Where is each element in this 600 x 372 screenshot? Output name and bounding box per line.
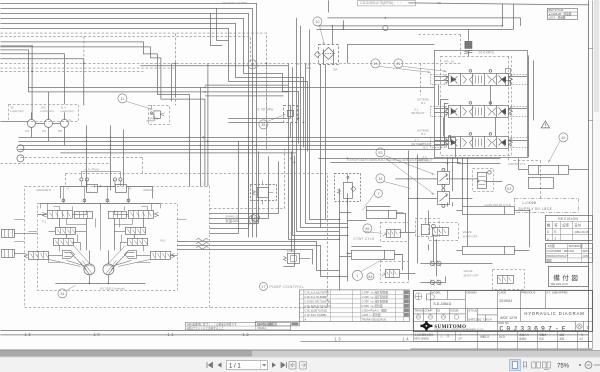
wire top manifold — [40, 186, 160, 203]
wire mid bus 2 — [18, 135, 450, 141]
bifu stamp box — [548, 266, 588, 286]
svg-text:VALVE: VALVE — [463, 269, 472, 273]
layout icon two-up — [532, 362, 541, 368]
wire bank risers — [438, 85, 495, 136]
wire 0.28MPa switch drop — [289, 122, 291, 137]
svg-text:SETC: SETC — [582, 249, 589, 253]
svg-text:1 1: 1 1 — [167, 332, 174, 337]
reducing valve R2 — [125, 227, 145, 234]
check valve symbol CV1 — [383, 25, 388, 30]
pilot relief valve W1 — [250, 180, 276, 204]
svg-text:MODEL: MODEL — [431, 290, 441, 294]
wire dashed pilot 2 — [0, 36, 175, 105]
svg-text:(MAGNET): (MAGNET) — [36, 188, 51, 192]
warning triangle — [541, 121, 549, 128]
svg-text:C.9L.&.A.7(L699B): C.9L.&.A.7(L699B) — [304, 295, 327, 299]
balloon 13 — [371, 59, 380, 68]
wire right column — [528, 55, 533, 157]
svg-text:0. 28 MPa: 0. 28 MPa — [257, 107, 273, 111]
balloon 15 — [248, 60, 257, 69]
balloon 61 — [505, 184, 513, 192]
wire solenoid line 1 — [395, 178, 478, 180]
wire block internal links — [14, 210, 177, 255]
wire block risers — [59, 203, 143, 250]
balloon 7 — [374, 189, 382, 197]
ctwt valve B hatched — [381, 269, 399, 277]
svg-text:備付図: 備付図 — [553, 273, 580, 282]
wire nest corner 1 — [209, 156, 278, 218]
re valve enclosure — [415, 218, 439, 236]
ctwt cylinder 2 — [351, 246, 402, 259]
wire long zigzag 1 — [0, 42, 189, 187]
wire nest corner 2 — [209, 146, 258, 228]
wire bank right stubs — [508, 76, 527, 140]
vertical scrollbar — [593, 0, 600, 350]
wire motor cross lines — [66, 252, 131, 274]
svg-text:SEE 2002.10.18: SEE 2002.10.18 — [550, 283, 568, 286]
nav first page button — [207, 362, 213, 368]
ctwt valve A enclosure — [380, 222, 408, 241]
balloon numbers — [60, 20, 565, 296]
svg-text:GATE DRUM CYLS: GATE DRUM CYLS — [484, 203, 510, 207]
hose break squiggles — [196, 239, 208, 250]
svg-text:20.6 MPa: 20.6 MPa — [478, 50, 493, 54]
svg-text:SOL1B: SOL1B — [286, 249, 295, 253]
svg-text:REV SYS+M: REV SYS+M — [548, 8, 563, 12]
horizontal scrollbar thumb — [0, 351, 252, 357]
reducing valve L2 — [55, 227, 75, 234]
filter F1 — [314, 44, 338, 64]
wire dashed pilot 1 — [0, 33, 266, 150]
svg-text:C.9L.&1U.7(L89B): C.9L.&1U.7(L89B) — [304, 313, 326, 317]
wire bus risers — [86, 125, 123, 190]
balloon 46 — [559, 133, 568, 142]
quick coupler pair 1 — [430, 260, 441, 266]
svg-text:PP₀ 10: PP₀ 10 — [444, 59, 454, 63]
balloon 10 — [313, 17, 322, 26]
wire long zigzag 2 — [0, 47, 205, 187]
wire top bundle line 2 — [0, 8, 252, 237]
ctwt valve A hatched — [382, 229, 400, 237]
svg-text:ISSUE: ISSUE — [450, 308, 458, 312]
damper valve — [145, 105, 165, 121]
svg-text:PRODUCTION A'T: PRODUCTION A'T — [546, 254, 568, 258]
balloon 1 — [352, 270, 362, 280]
zoom slider line — [594, 364, 600, 366]
svg-text:1 /4: 1 /4 — [487, 318, 492, 321]
svg-text:SUPPLY BY LBCE: SUPPLY BY LBCE — [518, 207, 552, 211]
svg-text:15: 15 — [250, 63, 254, 67]
zoom dot — [579, 364, 581, 366]
wire re valve column — [428, 210, 433, 262]
relief valve RV1 — [465, 41, 472, 48]
wire dashed pilot 5 — [265, 63, 267, 150]
svg-text:9 OFF ○◎ 配管図: 9 OFF ○◎ 配管図 — [361, 304, 382, 308]
svg-text:MFG-104(09): MFG-104(09) — [414, 337, 429, 340]
svg-text:▲C205-08・部品図: ▲C205-08・部品図 — [548, 12, 571, 16]
damper enclosure — [148, 105, 169, 124]
svg-text:1 OFF ○◎ 液圧配管図: 1 OFF ○◎ 液圧配管図 — [361, 299, 388, 303]
svg-text:P5: P5 — [58, 129, 62, 133]
svg-text:1: 1 — [554, 236, 556, 240]
wire ctwt valve links — [394, 213, 415, 273]
wire upper right double line — [316, 26, 513, 30]
svg-text:(REAR): (REAR) — [143, 188, 153, 192]
svg-text:HYDRAULIC DIAGRAM: HYDRAULIC DIAGRAM — [524, 311, 584, 316]
svg-text:○1位図: ○1位図 — [546, 244, 555, 248]
revision table right — [545, 215, 592, 240]
shutoff valve lower enclosure — [492, 269, 524, 289]
wire mid bus 1 — [18, 137, 455, 157]
pressure switch B — [283, 105, 297, 122]
balloon 35b — [259, 120, 268, 129]
svg-text:制図者: 制図者 — [539, 332, 547, 336]
svg-text:CDJ11009-A (748TR): CDJ11009-A (748TR) — [222, 1, 247, 5]
wire mid bus 4 — [18, 99, 448, 149]
svg-text:B.3: B.3 — [423, 145, 428, 149]
balloon 41 — [394, 59, 403, 68]
svg-text:049-P5(1)排紙図: 049-P5(1)排紙図 — [257, 322, 277, 326]
packing note box — [185, 322, 290, 330]
wire 0.28MPa branch B — [228, 105, 290, 122]
svg-text:53: 53 — [378, 151, 382, 155]
wire shutoff drop — [420, 240, 492, 282]
balloon 53 — [376, 148, 385, 157]
nav prev button — [218, 362, 222, 367]
svg-text:17: 17 — [261, 285, 265, 289]
balloon 38 — [249, 215, 258, 224]
svg-text:34: 34 — [60, 292, 64, 296]
svg-text:7: 7 — [377, 192, 379, 196]
pump group box — [8, 56, 578, 307]
brake valve L — [24, 251, 48, 259]
wire dashed outer enclosure wing — [65, 173, 327, 307]
svg-text:S-D-J38A11: S-D-J38A11 — [433, 302, 451, 306]
svg-text:J-PR: J-PR — [582, 254, 588, 258]
pilot valve top A2 — [115, 184, 126, 192]
svg-text:日付: 日付 — [574, 222, 581, 227]
svg-text:1 / 1: 1 / 1 — [229, 364, 241, 370]
nav next button — [272, 362, 276, 367]
solenoid valve SV1 — [437, 168, 449, 187]
pilot relief valve W2 — [334, 173, 360, 206]
toolbar background — [0, 357, 600, 372]
wire gantry lines — [518, 158, 588, 169]
svg-text:85: 85 — [365, 227, 369, 231]
shutoff valve upper enclosure — [428, 222, 458, 240]
svg-text:C.9L.&(1B.7L0911): C.9L.&(1B.7L0911) — [304, 308, 327, 312]
wire pump control columns — [283, 151, 294, 266]
nav last page button — [281, 362, 287, 368]
wire bank to solenoid — [447, 157, 452, 191]
balloon 84 — [367, 273, 374, 280]
wire nest corner 3 — [209, 141, 238, 233]
wire nest right fan — [288, 18, 347, 240]
svg-text:審査: 審査 — [559, 332, 564, 336]
spool valve V2 — [444, 102, 512, 118]
wire block pilot web — [14, 186, 186, 262]
svg-text:DRAWN: DRAWN — [466, 290, 476, 294]
re valve — [421, 218, 435, 236]
svg-text:安量285°: 安量285° — [225, 218, 239, 223]
parts list table — [299, 290, 409, 322]
zoom out button — [585, 362, 592, 369]
svg-text:校正: 校正 — [539, 336, 544, 340]
svg-text:PiL2: PiL2 — [160, 238, 166, 242]
svg-text:劁: 劁 — [547, 222, 550, 227]
edge valve far left 2 — [1, 249, 14, 257]
svg-text:CTWT CYLS: CTWT CYLS — [353, 237, 374, 241]
svg-text:排紙口3: 排紙口3 — [480, 334, 489, 338]
svg-text:11: 11 — [120, 97, 124, 101]
counterbalance cone L — [62, 250, 74, 258]
svg-text:1 3: 1 3 — [24, 332, 31, 337]
svg-text:34: 34 — [378, 177, 382, 181]
wire mid bus 5 — [60, 152, 296, 154]
wire left feed line 2 — [0, 54, 83, 106]
svg-text:承認: 承認 — [559, 336, 564, 340]
svg-text:75A: 75A — [332, 67, 337, 71]
svg-text:BY 28112 (entmin): BY 28112 (entmin) — [100, 286, 125, 290]
wire check to balloon61 — [484, 180, 502, 182]
svg-text:16: 16 — [253, 216, 257, 220]
pump P4 — [44, 119, 52, 127]
svg-text:DAMPE: DAMPE — [148, 116, 158, 120]
svg-text:N 0: N 0 — [499, 335, 504, 339]
lock note enclosure — [514, 198, 578, 212]
quick coupler pair 2 — [430, 279, 441, 285]
svg-text:84: 84 — [368, 275, 372, 279]
travel motor M2 — [103, 264, 114, 275]
svg-text:依項台: 依項台 — [519, 336, 527, 340]
svg-text:1 2: 1 2 — [242, 332, 249, 337]
inner reducing valve IL — [74, 211, 92, 218]
layout icon single (active) — [510, 360, 521, 371]
technic table right — [545, 243, 592, 262]
wire center columns — [200, 63, 208, 186]
svg-text:造船九九: 造船九九 — [519, 332, 529, 336]
svg-text:STYLE: STYLE — [468, 308, 477, 312]
wire pump suction — [0, 120, 27, 122]
gate drum cylinder 2 — [456, 246, 514, 254]
wire upper right single line — [327, 18, 520, 26]
frame right border — [587, 0, 589, 348]
valve bank dashed enclosure — [440, 56, 511, 155]
svg-text:10: 10 — [315, 20, 319, 24]
balloon 85 — [363, 224, 372, 233]
svg-text:MPa: MPa — [305, 66, 311, 70]
svg-text:35: 35 — [261, 123, 265, 127]
leader arrows — [66, 25, 560, 290]
svg-text:械包装要領に基づく・この製品の単体です: 械包装要領に基づく・この製品の単体です — [187, 322, 237, 326]
travel motor M1 — [84, 264, 95, 275]
counterbalance cone R — [124, 250, 136, 258]
svg-text:VALVE: VALVE — [462, 230, 471, 234]
wire top bundle line 4 — [0, 18, 298, 143]
svg-text:L/min(min): L/min(min) — [10, 109, 23, 113]
port square 1 — [505, 68, 510, 85]
wire retract line A3 — [318, 158, 500, 162]
parts table dark cells — [404, 290, 409, 316]
svg-text:L/min(min): L/min(min) — [60, 109, 73, 113]
wire ctwt feeders — [339, 188, 366, 290]
svg-text:A.T. 1988 APPRD: A.T. 1988 APPRD — [546, 290, 567, 294]
wire dashed bus drops — [0, 157, 142, 186]
toolbar controls — [207, 360, 600, 371]
wire dashed right drop — [508, 56, 540, 200]
title block stamps — [415, 293, 459, 319]
history back icon — [289, 362, 296, 370]
svg-text:SHUT-OFF: SHUT-OFF — [462, 234, 477, 238]
wire dashed pilot 4 — [0, 33, 175, 105]
title block bottom row — [413, 331, 592, 349]
svg-text:RETRACT: RETRACT — [411, 111, 424, 115]
node 43 balloon — [17, 145, 24, 152]
svg-text:1 3: 1 3 — [334, 336, 341, 341]
svg-text:A1 P₀ TP3/A1: A1 P₀ TP3/A1 — [84, 168, 99, 171]
frame ticks — [588, 0, 600, 348]
ctwt valve B enclosure — [380, 261, 408, 282]
spool valve V1 — [444, 70, 512, 86]
sumitomo logo — [420, 321, 484, 331]
svg-text:PREVIOUS: PREVIOUS — [521, 290, 535, 294]
wire stair sub-branch — [210, 8, 228, 45]
dwg no — [498, 321, 589, 332]
svg-text:COMP: COMP — [424, 308, 432, 312]
svg-text:DATE 2002. 7.24: DATE 2002. 7.24 — [468, 318, 488, 321]
svg-text:1 RM ○○ 配管図: 1 RM ○○ 配管図 — [361, 313, 381, 317]
svg-text:CDJ11009-A 75(8TRA)・・・: CDJ11009-A 75(8TRA)・・・ — [360, 1, 402, 5]
svg-text:41: 41 — [396, 62, 400, 66]
svg-text:TECHNIC図: TECHNIC図 — [568, 244, 583, 248]
svg-text:1 4: 1 4 — [402, 336, 409, 341]
wire left long risers — [408, 150, 417, 280]
pump control valve SOL1B — [283, 253, 310, 263]
wire dashed top right — [418, 34, 460, 56]
spool valve V3 — [444, 133, 512, 149]
travel valve inner enclosure — [37, 203, 177, 290]
horizontal scrollbar track — [0, 350, 600, 357]
frame top border — [408, 3, 588, 5]
wire mid long line — [28, 66, 434, 96]
svg-text:P3: P3 — [25, 129, 29, 133]
dashed pilot lines — [0, 33, 540, 307]
svg-text:DI: DI — [437, 308, 440, 312]
hatched control valves — [1, 203, 513, 283]
reducing valve R3 — [127, 238, 147, 245]
svg-text:1 OFF ○◎ 液圧配管図: 1 OFF ○◎ 液圧配管図 — [361, 290, 388, 294]
svg-text:図面: 図面 — [546, 258, 552, 262]
valve bank outer box — [434, 50, 527, 157]
svg-text:SUMITOMO(S.H.I.) CONSTRUCTION: SUMITOMO(S.H.I.) CONSTRUCTION MACHINERY … — [434, 328, 484, 331]
svg-text:B.2: B.2 — [421, 132, 426, 136]
svg-text:L⌂CK※B: L⌂CK※B — [522, 201, 536, 205]
solenoid valve SV2 — [437, 188, 449, 207]
svg-text:SHUT-OFF: SHUT-OFF — [463, 273, 478, 277]
svg-text:2-F: 2-F — [458, 337, 462, 340]
svg-text:4: 4 — [547, 230, 549, 234]
svg-text:P4: P4 — [42, 129, 46, 133]
balloon 34a — [58, 289, 67, 298]
wire filter riser — [328, 0, 343, 44]
svg-text:の2: の2 — [579, 337, 583, 340]
svg-text:13: 13 — [373, 62, 377, 66]
balloon 17 — [259, 282, 267, 290]
svg-text:CUSTOMER・MFG NO.: CUSTOMER・MFG NO. — [546, 249, 575, 253]
svg-text:021012: 021012 — [257, 326, 266, 330]
svg-text:△E13・部品図: △E13・部品図 — [548, 15, 565, 19]
svg-text:1 S(2+4T)(A+)・図面: 1 S(2+4T)(A+)・図面 — [361, 308, 387, 312]
svg-text:1 0: 1 0 — [93, 332, 100, 337]
top partnum box — [357, 0, 415, 6]
title block texts row1 — [414, 290, 567, 321]
svg-text:REVISION: REVISION — [558, 217, 578, 221]
svg-text:A: A — [304, 317, 306, 321]
svg-text:61: 61 — [507, 187, 511, 191]
wire filter loop — [320, 49, 333, 227]
svg-text:TRANS: TRANS — [414, 308, 423, 312]
title block — [413, 290, 592, 349]
reducing valve L3 — [53, 238, 73, 245]
wire left feed line — [0, 46, 48, 120]
travel valve outer enclosure — [24, 186, 209, 307]
wire block diagonals — [48, 245, 150, 274]
svg-text:75%: 75% — [557, 364, 570, 370]
reducing valve R1 — [128, 206, 158, 218]
wire relief riser — [467, 29, 469, 41]
ctwt cylinder 1 — [366, 206, 403, 218]
wire mid bus 3 — [18, 103, 448, 145]
svg-text:46: 46 — [561, 136, 565, 140]
edge valve far left 1 — [1, 229, 14, 237]
check valves row — [62, 199, 65, 202]
reference balloons — [58, 17, 568, 298]
svg-text:L/min(min): L/min(min) — [40, 109, 53, 113]
wire bank down risers — [457, 157, 500, 246]
svg-text:CADB: CADB — [498, 290, 506, 294]
layout icon two-up continuous — [543, 362, 551, 370]
shutoff valve upper hatched — [432, 227, 448, 235]
check valve unit — [477, 171, 491, 189]
frame page bottom edge — [300, 341, 592, 349]
svg-text:8/03' 1279: 8/03' 1279 — [500, 316, 517, 320]
svg-text:C.9.91U.G8.7(L60TB): C.9.91U.G8.7(L60TB) — [304, 299, 330, 303]
wire top bundle line 6 — [0, 28, 307, 151]
bank side dashed boxes — [430, 74, 528, 147]
wire solenoid line 2 — [408, 197, 472, 199]
wire travel lines right — [177, 241, 347, 276]
svg-text:B.1: B.1 — [421, 101, 426, 105]
gate drum cylinder 1 — [456, 206, 514, 214]
svg-text:E: E — [554, 230, 556, 234]
svg-text:GNTRY CYL.: GNTRY CYL. — [508, 162, 526, 166]
svg-text:1 OFF ○◎ 液圧配管図: 1 OFF ○◎ 液圧配管図 — [361, 295, 388, 299]
balloon 34b — [376, 174, 385, 183]
wire 0.28MPa riser A — [171, 63, 175, 101]
frame bottom borders — [0, 330, 588, 335]
pump P3 — [27, 119, 35, 127]
wire gate cyl feed — [447, 202, 529, 250]
svg-text:1: 1 — [356, 274, 358, 278]
balloon 16 — [251, 213, 259, 221]
pump P5 — [60, 119, 68, 127]
wire top bundle line 1 — [0, 3, 256, 237]
svg-text:C.9L.&.A.&(L706TB): C.9L.&.A.&(L706TB) — [304, 290, 329, 294]
svg-text:住友建機株式會社: 住友建機株式會社 — [414, 332, 434, 336]
svg-text:記事: 記事 — [562, 222, 569, 227]
balloon 11 — [118, 94, 127, 103]
svg-text:TRUNK 03(0)1242-E: TRUNK 03(0)1242-E — [361, 317, 386, 321]
